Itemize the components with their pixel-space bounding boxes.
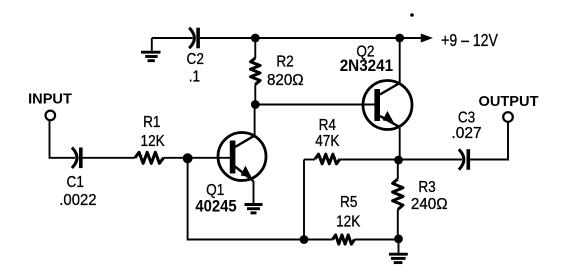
- svg-text:.1: .1: [189, 68, 200, 85]
- svg-text:C2: C2: [187, 51, 204, 68]
- svg-text:2N3241: 2N3241: [340, 58, 394, 76]
- svg-text:12K: 12K: [141, 133, 165, 150]
- svg-text:.027: .027: [451, 125, 481, 142]
- svg-text:INPUT: INPUT: [28, 91, 72, 107]
- svg-text:OUTPUT: OUTPUT: [479, 94, 539, 110]
- svg-text:12K: 12K: [336, 213, 360, 230]
- svg-text:820Ω: 820Ω: [267, 72, 304, 89]
- svg-text:C1: C1: [67, 174, 84, 191]
- svg-text:R4: R4: [319, 117, 336, 134]
- svg-text:47K: 47K: [315, 133, 339, 150]
- svg-text:R2: R2: [276, 53, 293, 70]
- svg-text:R1: R1: [143, 114, 160, 131]
- svg-text:R3: R3: [418, 179, 435, 196]
- svg-text:Q1: Q1: [206, 182, 224, 199]
- svg-text:.0022: .0022: [59, 191, 96, 209]
- svg-text:+9 – 12V: +9 – 12V: [441, 32, 498, 51]
- svg-text:40245: 40245: [195, 198, 237, 216]
- svg-text:240Ω: 240Ω: [411, 196, 448, 213]
- svg-text:R5: R5: [340, 194, 357, 211]
